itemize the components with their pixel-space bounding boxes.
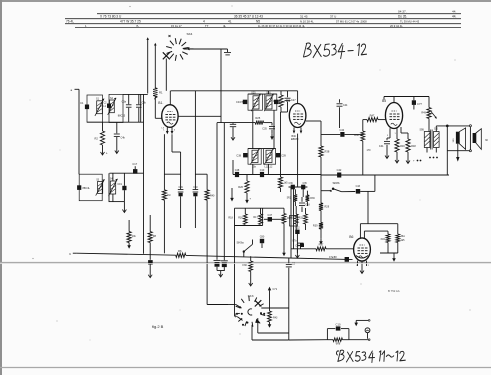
svg-text:R40: R40 (210, 195, 215, 198)
svg-text:C36: C36 (288, 183, 293, 185)
svg-text:44.: 44. (452, 14, 457, 18)
svg-text:1k5: 1k5 (401, 239, 406, 242)
svg-text:C47: C47 (268, 214, 273, 217)
svg-text:C49: C49 (178, 187, 183, 189)
svg-text:+: + (106, 152, 108, 156)
svg-text:C44: C44 (343, 104, 348, 107)
svg-text:R2: R2 (94, 137, 98, 141)
svg-text:X 76 73 80.3 U: X 76 73 80.3 U (100, 14, 122, 18)
svg-text:36 35 45 37 U 13 43: 36 35 45 37 U 13 43 (234, 14, 263, 18)
svg-text:C19: C19 (117, 183, 122, 186)
svg-text:04 37.: 04 37. (398, 10, 407, 14)
svg-text:C80: C80 (260, 236, 265, 239)
svg-text:R17: R17 (253, 216, 258, 219)
svg-text:SK9a: SK9a (237, 241, 244, 245)
svg-text:5T MU 61 CJ 07 4s :2008: 5T MU 61 CJ 07 4s :2008 (336, 19, 367, 23)
svg-text:TT: TT (205, 24, 209, 28)
svg-text:C4b: C4b (121, 137, 126, 140)
svg-text:R26: R26 (238, 185, 243, 189)
svg-text:C35: C35 (302, 183, 307, 185)
svg-text:170: 170 (367, 149, 372, 152)
svg-text:R1: R1 (159, 91, 163, 95)
svg-text:3C6: 3C6 (380, 238, 385, 241)
svg-text:R29: R29 (325, 206, 330, 209)
svg-text:TL 39 MU 44 43: TL 39 MU 44 43 (400, 19, 420, 23)
svg-text:20.9 44 4L: 20.9 44 4L (390, 24, 403, 28)
svg-text:C40: C40 (340, 129, 345, 132)
svg-text:4L: 4L (223, 24, 227, 28)
svg-text:N.10 28 4L: N.10 28 4L (300, 19, 314, 23)
svg-text:31 45: 31 45 (300, 14, 308, 18)
svg-text:C35: C35 (262, 128, 267, 131)
svg-text:C43: C43 (356, 185, 361, 188)
svg-text:C7b: C7b (292, 240, 297, 243)
svg-text:5R2: 5R2 (287, 198, 292, 200)
svg-text:B3: B3 (286, 99, 290, 103)
svg-text:4L: 4L (228, 19, 232, 23)
svg-text:37 U: 37 U (330, 14, 336, 18)
svg-text:B 752 AA: B 752 AA (388, 289, 400, 293)
svg-text:N5: N5 (256, 19, 260, 23)
svg-text:fig.2 B: fig.2 B (152, 324, 164, 329)
svg-text:C50: C50 (193, 187, 198, 189)
svg-text:C3b: C3b (142, 101, 147, 104)
svg-text:C27: C27 (291, 99, 296, 102)
svg-text:C10: C10 (336, 322, 341, 326)
svg-text:R48: R48 (411, 145, 416, 148)
svg-text:R33: R33 (299, 218, 304, 220)
svg-text:1k5: 1k5 (284, 182, 289, 185)
svg-text:R49: R49 (421, 112, 426, 115)
svg-text:88C4L: 88C4L (83, 187, 91, 190)
svg-text:C17: C17 (132, 162, 137, 166)
svg-text:S9B: S9B (419, 129, 424, 131)
svg-text:R18: R18 (228, 217, 233, 220)
svg-text:B6: B6 (349, 235, 353, 239)
svg-text:C32: C32 (295, 227, 300, 230)
svg-text:C3a: C3a (122, 101, 127, 104)
svg-text:C1: C1 (80, 101, 84, 105)
svg-text:C71: C71 (273, 288, 278, 291)
svg-text:R47: R47 (370, 113, 375, 117)
svg-text:C34: C34 (236, 100, 241, 104)
svg-text:R46: R46 (400, 145, 405, 148)
svg-text:Ds 35.: Ds 35. (398, 14, 407, 18)
svg-text:477 W 35.7 25: 477 W 35.7 25 (120, 19, 141, 23)
svg-text:R24: R24 (273, 100, 278, 103)
svg-text:SK8b: SK8b (332, 181, 339, 185)
svg-text:44.: 44. (452, 10, 456, 14)
svg-text:R39: R39 (313, 225, 318, 228)
svg-text:SK4: SK4 (187, 32, 193, 36)
svg-text:76 4L: 76 4L (66, 19, 74, 23)
svg-text:R36: R36 (310, 197, 315, 200)
svg-text:C41: C41 (379, 145, 384, 148)
svg-text:1M: 1M (167, 194, 170, 197)
svg-text:15 4s 17: 15 4s 17 (171, 24, 182, 28)
svg-text:R6: R6 (178, 249, 182, 253)
svg-text:C48: C48 (235, 169, 240, 172)
svg-text:R25: R25 (255, 116, 260, 120)
svg-text:R30: R30 (354, 134, 359, 137)
svg-text:4: 4 (203, 19, 205, 23)
svg-text:R43: R43 (273, 317, 278, 320)
svg-text:C42: C42 (337, 168, 342, 172)
svg-text:S26: S26 (266, 91, 271, 94)
svg-text:88C15: 88C15 (118, 115, 126, 118)
svg-text:C77: C77 (417, 102, 422, 106)
svg-text:B1.: B1. (158, 101, 163, 105)
svg-text:R37: R37 (319, 242, 324, 246)
svg-text:7L: 7L (136, 24, 140, 28)
svg-text:C10: C10 (260, 169, 265, 172)
svg-text:R38: R38 (325, 150, 330, 154)
svg-text:C7a/88: C7a/88 (329, 256, 337, 259)
svg-text:F30: F30 (242, 264, 247, 267)
svg-text:36A: 36A (401, 235, 406, 238)
svg-text:6R8: 6R8 (336, 342, 341, 345)
svg-text:S25: S25 (251, 92, 256, 95)
svg-text:C39: C39 (281, 154, 286, 157)
svg-text:B5: B5 (382, 99, 386, 103)
svg-text:C38: C38 (236, 154, 241, 157)
svg-text:R16: R16 (238, 217, 243, 220)
svg-text:1L 26 30 30 37 42 4L X 30 44 2: 1L 26 30 30 37 42 4L X 30 44 20.8 44 4L (258, 24, 306, 28)
